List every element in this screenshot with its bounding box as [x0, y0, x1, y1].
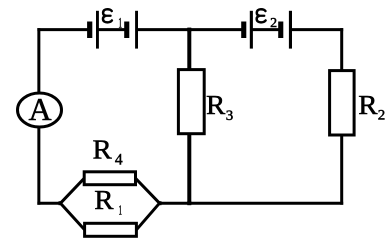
label R4 — [93, 135, 123, 168]
wire: between battery E2 cells — [252, 28, 279, 31]
wire: bottom horizontal from parallel group right node to bottom-right corner — [159, 202, 343, 205]
wire: diagonal from left node up to R4 — [61, 178, 85, 203]
svg-text:2: 2 — [378, 108, 386, 124]
resistor R1 body — [85, 223, 137, 236]
label R3 — [206, 91, 233, 124]
resistor R2 body — [330, 71, 355, 135]
ammeter A — [18, 91, 62, 127]
battery E2 cell 1 short thick plate — [241, 22, 246, 39]
battery E1 cell 2 short thick plate — [124, 22, 129, 39]
wire: left vertical from top-left corner down to ammeter — [37, 28, 40, 93]
svg-text:3: 3 — [226, 108, 234, 124]
wire: R2 bottom stem down to bottom-right corner — [340, 135, 343, 205]
svg-text:R: R — [93, 135, 113, 165]
node: junction of top wire and R3 branch — [187, 28, 191, 32]
wire: R3 top stem from top wire junction — [187, 28, 191, 70]
svg-text:R: R — [358, 91, 378, 121]
wire: between battery E1 cells — [98, 28, 125, 31]
battery E1 cell 1 long plate — [96, 11, 99, 49]
wire: diagonal from R4 down to right node — [136, 178, 160, 203]
node: junction of bottom wire and R3 branch — [187, 201, 191, 205]
wire: top horizontal from top-left corner to battery E1 — [37, 28, 88, 31]
wire: diagonal from left node down to R1 — [61, 203, 85, 230]
label epsilon-2 (EMF source E2) — [257, 9, 277, 31]
label R2 — [358, 91, 385, 124]
battery E2 cell 2 short thick plate — [278, 22, 283, 39]
wire: bottom horizontal from bottom-left corner to parallel group left node — [37, 202, 61, 205]
svg-text:1: 1 — [118, 16, 122, 31]
wire: left vertical from ammeter down to bottom-left corner — [37, 127, 40, 205]
wire: diagonal from R1 up to right node — [136, 203, 159, 230]
resistor R3 body — [178, 70, 204, 134]
battery E1 cell 1 short thick plate — [87, 22, 92, 39]
node: left vertex of R4/R1 parallel group — [59, 201, 63, 205]
svg-text:2: 2 — [270, 16, 277, 31]
svg-text:A: A — [29, 91, 52, 127]
svg-text:4: 4 — [115, 152, 123, 169]
wire: R3 bottom stem to bottom wire junction — [187, 134, 191, 205]
label R1 — [94, 186, 122, 218]
wire: top horizontal from E1 to E2 through R3 junction — [137, 28, 242, 31]
node: right vertex of R4/R1 parallel group — [158, 201, 162, 205]
battery E2 cell 2 long plate — [289, 11, 292, 49]
wire: top horizontal from E2 to top-right corner — [291, 28, 343, 31]
svg-text:R: R — [94, 186, 114, 216]
resistor R4 body — [84, 172, 135, 185]
label epsilon-1 (EMF source E1) — [103, 9, 122, 31]
battery E1 cell 2 long plate — [135, 11, 138, 49]
svg-text:1: 1 — [119, 203, 122, 218]
svg-text:R: R — [206, 91, 226, 121]
wire: right vertical from top-right corner down to R2 — [340, 28, 343, 71]
battery E2 cell 1 long plate — [250, 11, 253, 49]
